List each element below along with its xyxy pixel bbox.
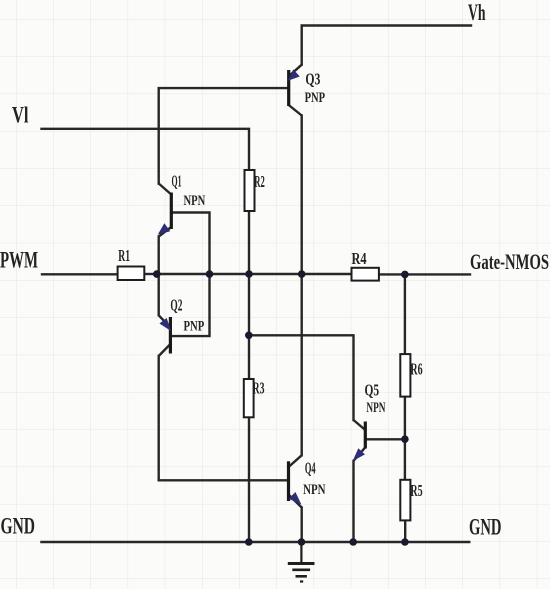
wire R2R3 tap to Q5 collector xyxy=(249,335,354,420)
svg-text:PWM: PWM xyxy=(0,247,38,272)
wire R5 to GND rail xyxy=(404,520,406,541)
svg-text:NPN: NPN xyxy=(366,400,385,416)
wire GND rail xyxy=(42,541,470,544)
svg-text:PNP: PNP xyxy=(184,318,205,334)
svg-text:Q2: Q2 xyxy=(170,296,182,315)
svg-text:PNP: PNP xyxy=(305,90,325,106)
junction node row at R2/R3 line xyxy=(245,270,253,278)
svg-text:Q4: Q4 xyxy=(305,459,316,478)
svg-text:Q5: Q5 xyxy=(365,381,380,400)
svg-text:Q3: Q3 xyxy=(305,70,320,89)
svg-text:R3: R3 xyxy=(253,379,265,398)
svg-text:R4: R4 xyxy=(352,249,367,268)
junction node row at main rail xyxy=(298,270,306,278)
junction node row at Q1/Q2 emitters xyxy=(153,270,161,278)
svg-text:GND: GND xyxy=(1,513,36,538)
wire node row xyxy=(157,273,352,275)
resistor R2 xyxy=(245,170,265,211)
wire Q1 emitter to node row xyxy=(157,237,159,275)
wire node row to Q2 base xyxy=(170,274,209,336)
svg-text:Q1: Q1 xyxy=(172,172,182,191)
junction Q5 base at R6/R5 xyxy=(401,435,409,443)
wire Vh rail xyxy=(302,26,471,65)
junction GND rail at R3 xyxy=(245,538,253,546)
wire node row to R3 top xyxy=(248,274,250,379)
junction R4 output at R6 xyxy=(401,271,409,279)
wire Q5 base to R5R6 junction xyxy=(365,438,405,440)
wire R2 bottom to PWM node row xyxy=(248,211,250,274)
wire PWM input to R1 xyxy=(42,273,118,275)
resistor R4 xyxy=(352,249,379,281)
junction GND rail at Q4 emitter xyxy=(298,538,306,546)
junction R2/R3 line tap to Q5 xyxy=(245,332,253,340)
wire R1 to node row xyxy=(144,273,157,275)
svg-text:NPN: NPN xyxy=(184,193,206,209)
wire Q3 base to Q1 collector xyxy=(159,88,289,183)
resistor R5 xyxy=(400,480,422,521)
wire Q1 base to node row xyxy=(171,213,209,275)
wire main rail Q3 collector to Q4 collector xyxy=(301,116,303,456)
wire Q4 emitter to GND rail xyxy=(301,508,303,542)
resistor R3 xyxy=(244,379,265,418)
wire node row to Q2 emitter xyxy=(157,274,159,315)
transistor Q3 PNP xyxy=(289,65,325,116)
wire R6 to R5 xyxy=(404,397,406,480)
svg-text:Gate-NMOS: Gate-NMOS xyxy=(470,249,549,274)
svg-text:R1: R1 xyxy=(118,246,130,265)
transistor Q4 NPN xyxy=(289,455,326,507)
svg-text:Vh: Vh xyxy=(468,0,486,25)
junction GND rail at Q5 emitter xyxy=(349,538,357,546)
transistor Q2 PNP xyxy=(159,296,205,356)
svg-text:NPN: NPN xyxy=(303,482,326,498)
junction node row at Q1/Q2 bases xyxy=(206,270,214,278)
junction GND rail at R5 xyxy=(401,538,409,546)
svg-text:R5: R5 xyxy=(410,481,422,500)
svg-text:GND: GND xyxy=(469,515,502,540)
wire Vl rail to R2 xyxy=(42,129,250,171)
svg-text:R2: R2 xyxy=(254,172,264,191)
wire R3 bottom to GND rail xyxy=(248,417,250,541)
wire Q2 collector to Q4 base xyxy=(159,356,289,480)
wire Q5 emitter to GND rail xyxy=(352,461,354,542)
ground symbol xyxy=(288,542,315,582)
wire R4 node down to R6 xyxy=(404,274,406,354)
transistor Q5 NPN xyxy=(354,381,386,461)
resistor R6 xyxy=(400,354,422,397)
svg-text:R6: R6 xyxy=(410,359,422,378)
resistor R1 xyxy=(118,246,145,280)
wire R4 to Gate-NMOS output xyxy=(379,273,470,275)
svg-text:Vl: Vl xyxy=(12,102,29,127)
transistor Q1 NPN xyxy=(159,172,206,237)
